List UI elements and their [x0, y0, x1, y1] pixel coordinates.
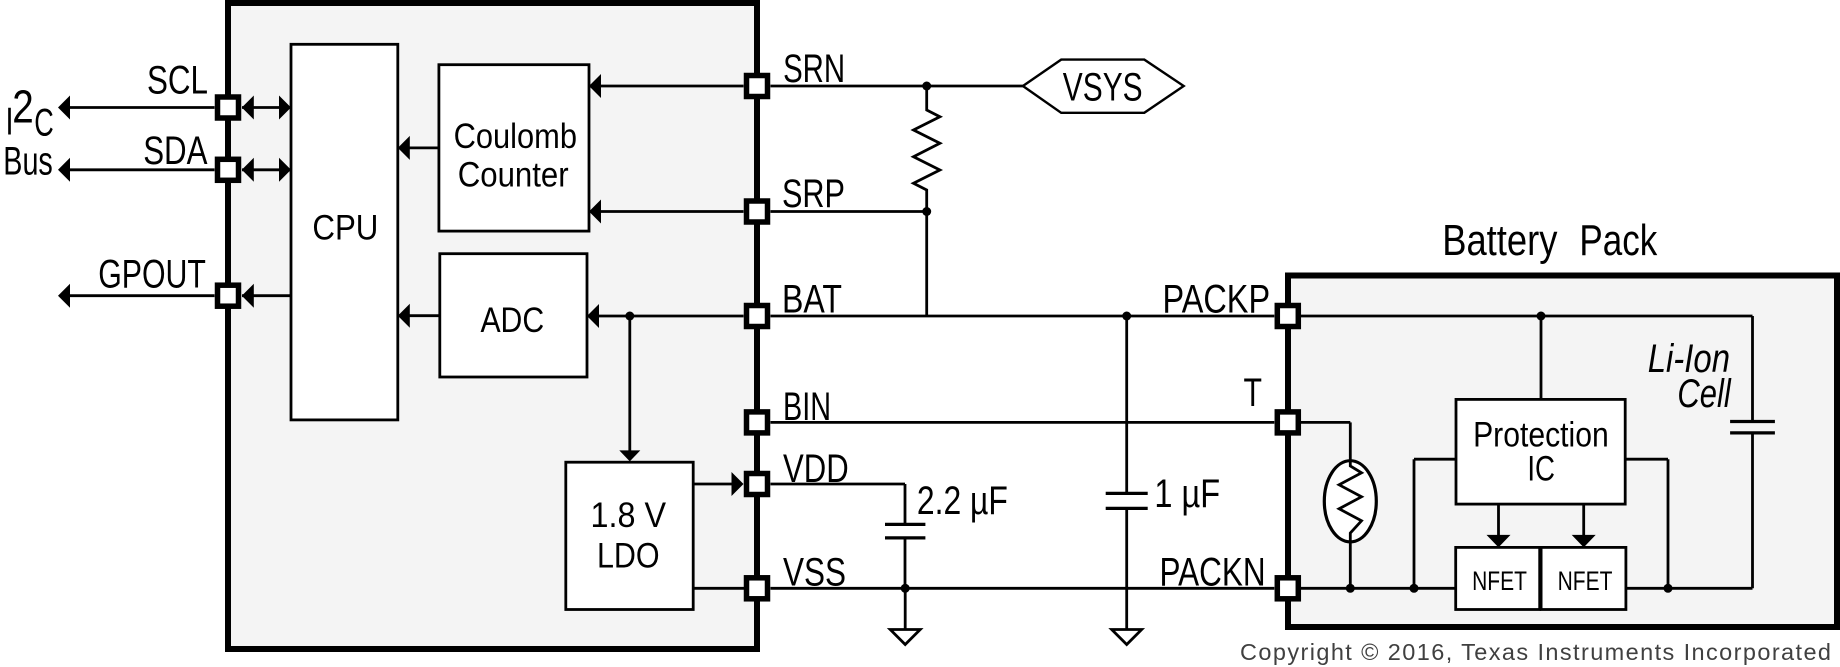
svg-text:NFET: NFET	[1472, 566, 1527, 596]
pin BAT	[747, 306, 768, 327]
pin SDA	[218, 159, 239, 180]
svg-text:1.8 V: 1.8 V	[591, 496, 667, 535]
wire GPOUT internal	[242, 294, 291, 297]
svg-text:NFET: NFET	[1558, 566, 1613, 596]
wire Coulomb Counter to CPU	[398, 146, 439, 149]
wire junction to LDO	[628, 316, 631, 451]
wire SRP to Coulomb Counter	[589, 210, 743, 213]
node ProtIC-right junction	[1664, 584, 1673, 593]
resistor R1 (sense)	[914, 86, 940, 212]
battery pack outline	[1288, 276, 1837, 628]
pin PACKP	[1277, 306, 1298, 327]
wire resistor to BAT net	[925, 212, 928, 317]
svg-text:Pack: Pack	[1579, 216, 1658, 265]
ground symbol (C2)	[904, 588, 907, 629]
svg-text:PACKN: PACKN	[1160, 550, 1266, 594]
svg-text:SRN: SRN	[783, 47, 845, 91]
svg-text:SCL: SCL	[147, 59, 208, 103]
pin BIN	[747, 412, 768, 433]
capacitor cell (Li-Ion)	[1730, 420, 1775, 423]
svg-text:C: C	[34, 101, 54, 144]
node VSS-C2-ground junction	[901, 584, 910, 593]
wire SDA external	[62, 168, 215, 171]
ADC block	[440, 254, 587, 377]
pin T	[1277, 412, 1298, 433]
wire ADC to CPU	[398, 314, 440, 317]
transistor NFET Q1	[1456, 547, 1540, 609]
node PACKP-protection junction	[1537, 312, 1546, 321]
svg-text:1 µF: 1 µF	[1154, 472, 1220, 516]
Coulomb Counter block	[439, 65, 589, 231]
node SRN-resistor junction	[922, 82, 931, 91]
wire SCL external	[62, 106, 215, 109]
wire Protection IC to NFET1 gate	[1497, 504, 1500, 536]
svg-text:GPOUT: GPOUT	[98, 252, 206, 296]
svg-text:SRP: SRP	[782, 172, 845, 216]
svg-text:Copyright © 2016, Texas Instru: Copyright © 2016, Texas Instruments Inco…	[1240, 639, 1831, 665]
wire BIN net	[771, 421, 1275, 424]
net VSYS hexagon	[1023, 60, 1184, 113]
pin VSS	[747, 578, 768, 599]
wire SRP net	[771, 210, 927, 213]
pin SRN	[747, 76, 768, 97]
ground symbol (C1)	[1112, 630, 1142, 645]
svg-text:Battery: Battery	[1442, 216, 1557, 265]
transistor NFET Q2	[1541, 547, 1626, 609]
wire SDA internal	[242, 168, 291, 171]
CPU block	[291, 44, 398, 420]
svg-text:Counter: Counter	[458, 156, 569, 195]
wire Protection IC left to PACKN	[1414, 458, 1456, 461]
wire SCL internal	[242, 106, 291, 109]
svg-text:Protection: Protection	[1473, 416, 1609, 455]
wire LDO to VDD pin	[693, 483, 732, 486]
wire SRN to Coulomb Counter	[589, 85, 743, 88]
capacitor C2 2.2uF	[885, 523, 925, 526]
node BAT-C1 junction	[1122, 312, 1131, 321]
wire T to thermistor	[1301, 421, 1350, 424]
node thermistor-PACKN junction	[1346, 584, 1355, 593]
svg-text:CPU: CPU	[312, 209, 378, 248]
Protection IC block	[1456, 399, 1625, 504]
pin VDD	[747, 474, 768, 495]
wire VDD net to C2	[771, 483, 906, 486]
wire NFET to cell	[1626, 587, 1753, 590]
node SRP-resistor junction	[922, 207, 931, 216]
wire PACKN to NFET	[1301, 587, 1456, 590]
wire LDO to VSS pin	[693, 587, 746, 590]
wire BAT to ADC	[587, 315, 743, 318]
wire SRN net	[771, 85, 1023, 88]
svg-text:IC: IC	[1527, 450, 1555, 489]
svg-text:T: T	[1244, 371, 1263, 415]
wire VSS net	[771, 587, 1275, 590]
wire Protection IC right	[1625, 458, 1668, 461]
svg-text:2: 2	[12, 81, 34, 133]
svg-text:2.2 µF: 2.2 µF	[917, 479, 1008, 523]
svg-text:ADC: ADC	[480, 301, 544, 340]
svg-text:VSYS: VSYS	[1063, 66, 1143, 110]
wire Protection IC to NFET2 gate	[1582, 504, 1585, 536]
thermistor RT1	[1324, 461, 1376, 542]
wire PACKP to cell	[1301, 315, 1753, 318]
fuel gauge IC outline	[228, 3, 757, 649]
pin SRP	[747, 201, 768, 222]
pin SCL	[218, 97, 239, 118]
wire BAT net	[771, 315, 1275, 318]
svg-text:SDA: SDA	[143, 129, 208, 173]
svg-text:LDO: LDO	[597, 537, 660, 576]
svg-text:PACKP: PACKP	[1163, 277, 1271, 321]
capacitor C1 1uF	[1125, 316, 1128, 492]
wire GPOUT external	[62, 294, 215, 297]
node ProtIC-left-PACKN junction	[1410, 584, 1419, 593]
svg-text:Coulomb: Coulomb	[454, 117, 577, 156]
node BAT-LDO junction	[625, 312, 634, 321]
pin GPOUT	[218, 285, 239, 306]
svg-text:Cell: Cell	[1677, 372, 1731, 416]
1.8 V LDO block U2	[566, 462, 693, 609]
wire junction to Protection IC	[1540, 316, 1543, 399]
pin PACKN	[1277, 578, 1298, 599]
svg-text:Bus: Bus	[3, 140, 53, 184]
